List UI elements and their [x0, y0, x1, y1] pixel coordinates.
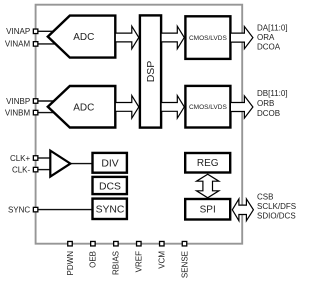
svg-text:DCOB: DCOB: [257, 109, 280, 118]
SYNC block: [93, 199, 127, 219]
svg-text:VREF: VREF: [135, 251, 144, 272]
wire clock buffer to DIV: [70, 163, 93, 165]
svg-text:ORA: ORA: [257, 33, 275, 42]
chip boundary: [36, 5, 243, 244]
clock buffer triangle: [50, 151, 70, 177]
svg-text:DCOA: DCOA: [257, 43, 281, 52]
svg-text:CSB: CSB: [257, 192, 273, 201]
svg-text:CMOS/LVDS: CMOS/LVDS: [189, 104, 227, 111]
pin SYNC: [8, 205, 38, 214]
svg-text:DCS: DCS: [99, 181, 121, 192]
net DB outputs: [257, 89, 288, 118]
wire VINAM to ADC A: [38, 43, 58, 45]
svg-text:ORB: ORB: [257, 99, 274, 108]
pin CLK-: [12, 165, 38, 174]
svg-text:REG: REG: [197, 158, 219, 169]
svg-text:DIV: DIV: [101, 159, 118, 170]
net DA outputs: [257, 24, 288, 52]
double arrow SPI to serial port pins: [232, 199, 253, 221]
DIV block: [93, 153, 127, 173]
svg-text:DA[11:0]: DA[11:0]: [257, 24, 288, 33]
svg-text:SYNC: SYNC: [8, 205, 30, 214]
block arrow CMOS/LVDS A to outputs: [230, 27, 253, 49]
pin SENSE: [180, 241, 189, 278]
svg-text:VCM: VCM: [158, 251, 167, 269]
svg-text:DSP: DSP: [145, 61, 157, 83]
pin VREF: [135, 241, 144, 272]
svg-text:VINBM: VINBM: [5, 108, 31, 117]
pin OEB: [89, 241, 98, 267]
svg-text:ADC: ADC: [73, 102, 94, 113]
DSP U1: [140, 15, 161, 127]
wire VINAP to ADC A: [38, 30, 58, 32]
svg-text:SDIO/DCS: SDIO/DCS: [257, 212, 296, 221]
ADC B: [48, 86, 116, 128]
svg-text:OEB: OEB: [89, 251, 98, 268]
pin VINBM: [5, 108, 38, 117]
pin CLK+: [10, 154, 38, 163]
svg-text:CLK-: CLK-: [12, 165, 31, 174]
svg-text:DB[11:0]: DB[11:0]: [257, 89, 288, 98]
svg-text:SYNC: SYNC: [96, 205, 125, 216]
wire SYNC pin to SYNC block: [38, 209, 93, 211]
DCS block: [93, 177, 127, 194]
REG block: [185, 153, 230, 173]
CMOS/LVDS A: [185, 16, 230, 59]
svg-text:CMOS/LVDS: CMOS/LVDS: [189, 35, 227, 42]
svg-text:CLK+: CLK+: [10, 154, 31, 163]
wire CLK- to clock buffer: [38, 169, 52, 171]
block arrow CMOS/LVDS B to outputs: [230, 96, 253, 118]
pin VINBP: [6, 97, 38, 106]
pin VINAP: [6, 27, 38, 36]
wire VINBM to ADC B: [38, 112, 58, 114]
double arrow REG to SPI: [197, 174, 219, 198]
svg-text:RBIAS: RBIAS: [112, 251, 121, 275]
pin RBIAS: [112, 241, 121, 275]
svg-text:ADC: ADC: [73, 32, 94, 43]
ADC A: [48, 16, 116, 58]
wire CLK+ to clock buffer: [38, 157, 52, 159]
svg-text:VINBP: VINBP: [6, 97, 30, 106]
svg-text:VINAP: VINAP: [6, 27, 30, 36]
pin PDWN: [66, 241, 75, 275]
block arrow DSP to CMOS/LVDS B: [161, 96, 184, 119]
block arrow ADC A to DSP: [115, 26, 139, 49]
wire VINBP to ADC B: [38, 100, 58, 102]
svg-text:PDWN: PDWN: [66, 251, 75, 276]
net serial port pins: [257, 192, 296, 220]
block arrow DSP to CMOS/LVDS A: [161, 26, 184, 49]
svg-text:SCLK/DFS: SCLK/DFS: [257, 202, 296, 211]
pin VINAM: [5, 40, 38, 49]
svg-text:VINAM: VINAM: [5, 40, 31, 49]
CMOS/LVDS B: [185, 86, 230, 128]
block arrow ADC B to DSP: [115, 96, 139, 119]
SPI block: [185, 199, 230, 220]
svg-text:SPI: SPI: [200, 205, 216, 216]
pin VCM: [158, 241, 167, 268]
svg-text:SENSE: SENSE: [180, 251, 189, 278]
